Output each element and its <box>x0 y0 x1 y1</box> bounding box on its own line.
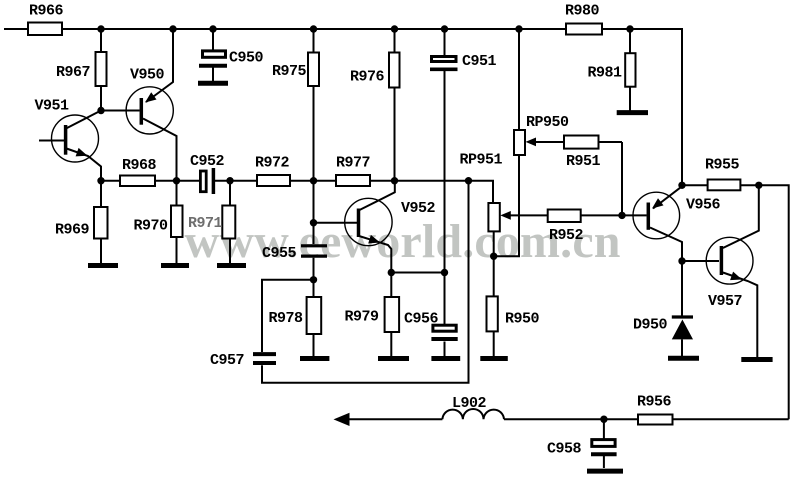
svg-text:C956: C956 <box>404 311 439 328</box>
svg-text:R968: R968 <box>122 157 157 174</box>
svg-text:R979: R979 <box>345 309 380 326</box>
svg-text:C952: C952 <box>190 153 225 170</box>
svg-text:RP951: RP951 <box>460 152 503 169</box>
svg-text:V951: V951 <box>35 98 70 115</box>
svg-text:R950: R950 <box>505 311 540 328</box>
svg-text:C951: C951 <box>462 53 497 70</box>
svg-text:R981: R981 <box>588 65 623 82</box>
svg-text:R966: R966 <box>29 3 64 20</box>
svg-text:R952: R952 <box>549 227 584 244</box>
svg-text:D950: D950 <box>633 317 668 334</box>
svg-text:R970: R970 <box>134 218 169 235</box>
svg-text:C957: C957 <box>210 352 244 369</box>
svg-text:V956: V956 <box>686 197 721 214</box>
svg-text:R955: R955 <box>705 157 740 174</box>
svg-text:V952: V952 <box>401 200 436 217</box>
svg-text:R976: R976 <box>350 69 385 86</box>
svg-text:R951: R951 <box>566 153 601 170</box>
svg-text:R971: R971 <box>188 215 223 232</box>
svg-text:R969: R969 <box>55 222 90 239</box>
svg-text:C955: C955 <box>262 245 297 262</box>
svg-text:R977: R977 <box>336 155 370 172</box>
svg-text:L902: L902 <box>452 395 487 412</box>
svg-text:R978: R978 <box>269 310 304 327</box>
svg-text:R972: R972 <box>255 155 290 172</box>
svg-text:RP950: RP950 <box>526 114 569 131</box>
svg-text:V957: V957 <box>708 293 742 310</box>
svg-text:C950: C950 <box>229 50 264 67</box>
svg-text:C958: C958 <box>547 441 582 458</box>
svg-text:R980: R980 <box>565 3 600 20</box>
svg-text:V950: V950 <box>130 67 165 84</box>
svg-text:R956: R956 <box>637 394 672 411</box>
svg-text:R975: R975 <box>272 63 307 80</box>
svg-text:R967: R967 <box>56 64 90 81</box>
